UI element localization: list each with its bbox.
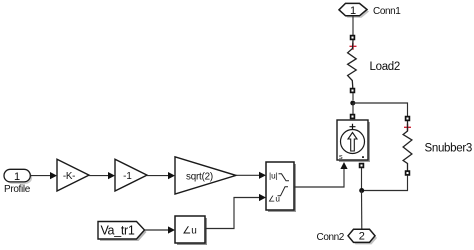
wire sqrt(2) to magnitude input	[236, 172, 266, 179]
wire Profile to gain -K-	[30, 172, 57, 179]
port marker Load2 top	[351, 36, 355, 40]
port marker current source top	[351, 115, 355, 119]
label Profile	[4, 184, 31, 195]
wire gain -1 to gain sqrt(2)	[147, 172, 175, 179]
svg-text:1: 1	[350, 5, 356, 17]
controlled current source U2	[337, 120, 370, 162]
wire gain -K- to gain -1	[89, 172, 115, 179]
wire current source bottom to node B	[361, 168, 363, 191]
svg-text:|u|: |u|	[269, 172, 278, 181]
wire Va_tr1 to angle block	[145, 226, 176, 233]
svg-text:sqrt(2): sqrt(2)	[186, 171, 213, 182]
svg-text:s: s	[339, 152, 343, 161]
From tag Va_tr1	[98, 222, 147, 242]
gain -K-	[57, 159, 89, 191]
wire node B to Conn2	[361, 191, 363, 230]
wire Conn1 to Load2	[352, 16, 354, 35]
svg-text:-K-: -K-	[63, 171, 75, 182]
svg-text:∠u: ∠u	[182, 225, 197, 236]
label Conn1	[373, 6, 401, 17]
svg-text:Va_tr1: Va_tr1	[100, 224, 134, 238]
svg-text:Conn2: Conn2	[317, 232, 345, 243]
gain -1	[115, 159, 147, 191]
label Conn2	[317, 232, 345, 243]
label Load2	[370, 61, 400, 73]
port marker current source bottom	[360, 164, 364, 168]
outport Conn2 hexagon 2	[348, 229, 377, 244]
port marker Snubber3 bottom	[406, 171, 410, 175]
wire Load2 to node A	[352, 93, 354, 100]
port marker Load2 bottom	[351, 89, 355, 93]
outport Conn1 hexagon 1	[339, 3, 369, 17]
polarity marker Load2 red +	[350, 43, 357, 50]
svg-text:2: 2	[359, 230, 365, 242]
label Snubber3	[425, 143, 472, 155]
svg-text:Conn1: Conn1	[373, 6, 401, 17]
node B junction	[359, 188, 364, 193]
resistor Snubber3	[403, 121, 412, 171]
svg-text:1: 1	[14, 171, 20, 183]
svg-text:Load2: Load2	[370, 61, 400, 73]
port marker Snubber3 top	[406, 117, 410, 121]
wire complex out to current source s input	[294, 162, 348, 187]
wire node A to current source top	[352, 103, 354, 114]
resistor Load2	[348, 40, 357, 88]
gain sqrt(2)	[175, 157, 236, 194]
inport 1 Profile	[4, 169, 32, 184]
node A junction	[350, 101, 355, 106]
wire Snubber3 to node B	[362, 175, 408, 190]
svg-text:Profile: Profile	[4, 184, 31, 195]
polarity marker Snubber3 red +	[404, 124, 411, 131]
svg-text:Snubber3: Snubber3	[425, 143, 472, 155]
wire node A to Snubber3 top	[353, 103, 408, 116]
block magnitude-angle to complex U1	[266, 162, 296, 212]
svg-text:-1: -1	[123, 171, 132, 182]
wire angle block to angle input	[205, 194, 266, 229]
angle block U(angle)	[175, 216, 207, 245]
